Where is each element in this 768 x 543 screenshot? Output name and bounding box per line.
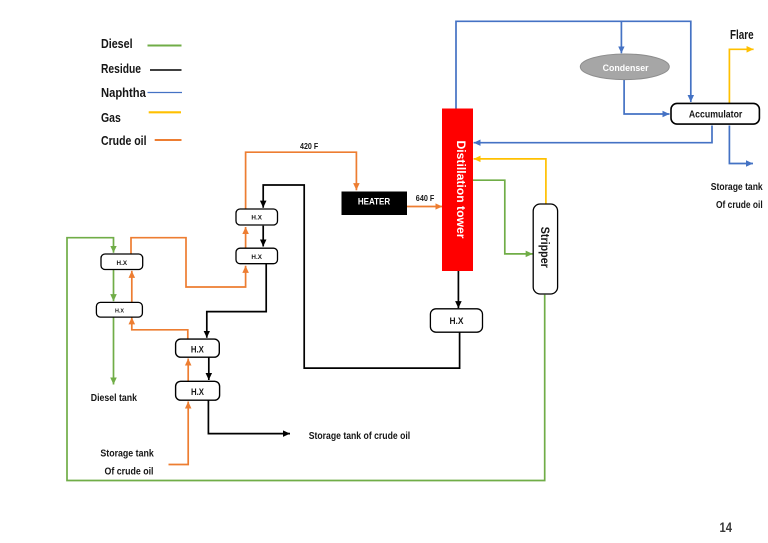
svg-text:H.X: H.X [191, 387, 204, 397]
wire crude oil 420F HX1 to heater [246, 152, 357, 209]
svg-text:H.X: H.X [450, 316, 465, 327]
svg-text:H.X: H.X [251, 214, 262, 221]
wire gas to flare [729, 49, 753, 104]
heat exchanger HX5 [176, 339, 220, 357]
wire reflux: accumulator to tower [474, 126, 712, 143]
svg-text:14: 14 [720, 520, 733, 535]
condenser [580, 54, 669, 80]
wire crude oil 640F heater to tower [407, 206, 442, 208]
svg-text:Naphtha: Naphtha [101, 85, 146, 100]
svg-text:Of crude oil: Of crude oil [105, 467, 154, 478]
svg-text:Stripper: Stripper [538, 227, 550, 268]
legend Crude oil [101, 133, 182, 148]
svg-text:H.X: H.X [251, 254, 262, 261]
svg-text:Crude oil: Crude oil [101, 133, 147, 148]
wire stripper overhead gas to tower [474, 159, 546, 204]
svg-text:Residue: Residue [101, 61, 141, 76]
wire residue HX7 loop to HX1 [263, 185, 459, 368]
wire naphtha to storage tank [729, 126, 753, 164]
svg-text:Accumulator: Accumulator [689, 110, 743, 121]
wire diesel HX4 to diesel tank [113, 317, 115, 384]
legend Gas [101, 110, 181, 125]
heat exchanger HX2 [236, 248, 278, 264]
wire crude oil HX4 to HX3 [131, 271, 133, 303]
wire crude oil HX5 to HX4 [132, 317, 188, 339]
accumulator [671, 103, 759, 124]
wire diesel: stripper bottom loop to HX3 [67, 238, 545, 481]
wire diesel HX3 to HX4 [113, 270, 115, 302]
heat exchanger HX3 [101, 254, 143, 270]
svg-text:420 F: 420 F [300, 141, 318, 151]
legend Naphtha [101, 85, 182, 100]
wire crude oil HX3 to HX2 [131, 238, 246, 287]
svg-text:HEATER: HEATER [358, 197, 391, 207]
svg-text:Distillation tower: Distillation tower [454, 141, 466, 240]
svg-text:Gas: Gas [101, 110, 121, 125]
distillation tower [442, 109, 473, 272]
heater [342, 192, 408, 216]
heat exchanger HX6 [176, 381, 220, 400]
wire crude oil HX6 to HX5 [187, 359, 189, 382]
svg-text:Storage tank of crude oil: Storage tank of crude oil [309, 431, 411, 442]
wire residue HX2 to HX5 [207, 264, 266, 338]
stripper [533, 204, 557, 294]
svg-text:Condenser: Condenser [603, 63, 649, 74]
svg-text:Storage tank: Storage tank [100, 449, 154, 460]
svg-text:Diesel tank: Diesel tank [91, 393, 138, 404]
legend Diesel [101, 36, 182, 51]
wire residue HX6 to storage [208, 400, 290, 433]
svg-text:Diesel: Diesel [101, 36, 133, 51]
wire residue HX1 to HX2 [262, 226, 264, 247]
heat exchanger HX7 [430, 309, 482, 332]
legend Residue [101, 61, 182, 76]
svg-text:H.X: H.X [115, 308, 124, 314]
wire naphtha overhead: tower top to accumulator [456, 21, 691, 108]
wire naphtha branch to condenser [620, 21, 622, 53]
wire crude oil HX2 to HX1 [245, 227, 247, 248]
svg-text:Storage tank: Storage tank [711, 182, 763, 193]
svg-text:H.X: H.X [117, 260, 128, 267]
heat exchanger HX4 [96, 302, 142, 317]
svg-text:640 F: 640 F [416, 193, 435, 203]
wire residue HX5 to HX6 [208, 357, 210, 380]
svg-text:Of crude oil: Of crude oil [716, 200, 763, 211]
svg-text:Flare: Flare [730, 28, 754, 42]
wire crude oil inlet to HX6 [169, 402, 189, 465]
heat exchanger HX1 [236, 209, 278, 225]
wire diesel draw: tower to stripper [473, 180, 533, 254]
wire condenser outlet to accumulator [624, 80, 669, 114]
svg-text:H.X: H.X [191, 344, 204, 354]
wire residue tower bottom to HX7 [457, 271, 459, 308]
